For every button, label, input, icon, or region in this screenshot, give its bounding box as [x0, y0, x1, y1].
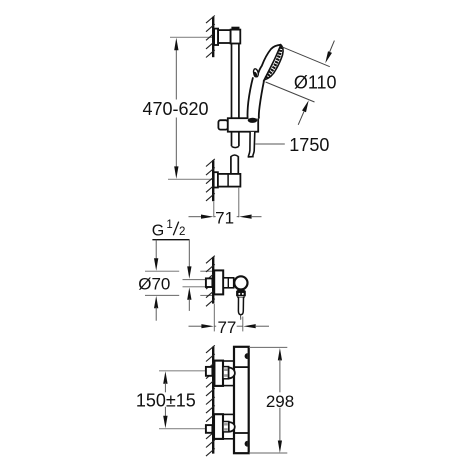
svg-text:298: 298 — [266, 392, 294, 411]
svg-text:1750: 1750 — [289, 135, 329, 155]
svg-text:G: G — [152, 222, 164, 239]
svg-text:2: 2 — [179, 226, 185, 238]
svg-text:150±15: 150±15 — [136, 391, 196, 411]
svg-text:71: 71 — [215, 209, 234, 228]
svg-text:470-620: 470-620 — [142, 99, 208, 119]
svg-text:1: 1 — [166, 219, 172, 231]
svg-text:Ø110: Ø110 — [294, 73, 337, 93]
svg-text:Ø70: Ø70 — [138, 274, 170, 293]
svg-text:77: 77 — [217, 318, 236, 337]
